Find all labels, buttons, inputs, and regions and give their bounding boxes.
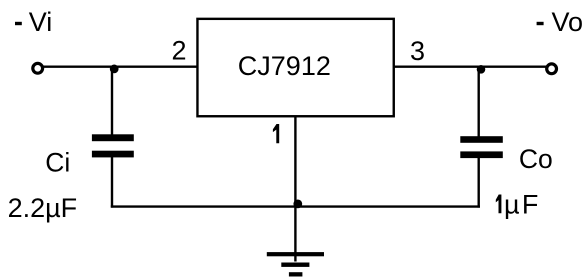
wire input terminal to pin 2 <box>44 65 198 67</box>
junction output node <box>477 65 486 74</box>
wire input node down to Ci <box>111 67 113 135</box>
svg-text:Vi: Vi <box>29 7 53 37</box>
ground <box>267 252 324 276</box>
wire output node down to Co <box>478 67 480 137</box>
svg-text:µ: µ <box>504 189 520 219</box>
svg-text:Co: Co <box>519 144 553 174</box>
wire ground rail to ground symbol <box>294 207 296 262</box>
svg-text:2.2µF: 2.2µF <box>8 193 78 223</box>
svg-text:F: F <box>522 189 539 219</box>
input terminal <box>33 63 43 73</box>
wire pin 3 to output terminal <box>394 65 546 67</box>
svg-text:3: 3 <box>410 36 425 66</box>
wire Co to ground rail <box>478 158 480 208</box>
pin 1 label <box>273 124 279 143</box>
ground rail wire <box>111 205 480 207</box>
junction input node <box>110 65 119 74</box>
node -Vi label <box>15 7 52 37</box>
svg-text:2: 2 <box>172 35 187 65</box>
wire Ci to ground rail <box>111 157 113 208</box>
wire pin 1 to ground rail <box>294 116 296 207</box>
junction ground node <box>293 200 302 209</box>
Co value 1uF <box>496 189 539 219</box>
capacitor Co <box>460 136 503 158</box>
svg-text:Vo: Vo <box>552 7 584 37</box>
capacitor Ci <box>92 134 134 157</box>
svg-text:CJ7912: CJ7912 <box>238 51 331 81</box>
output terminal <box>547 64 557 74</box>
node -Vo label <box>537 7 583 37</box>
svg-text:Ci: Ci <box>45 148 70 178</box>
regulator U1 body <box>197 19 393 116</box>
